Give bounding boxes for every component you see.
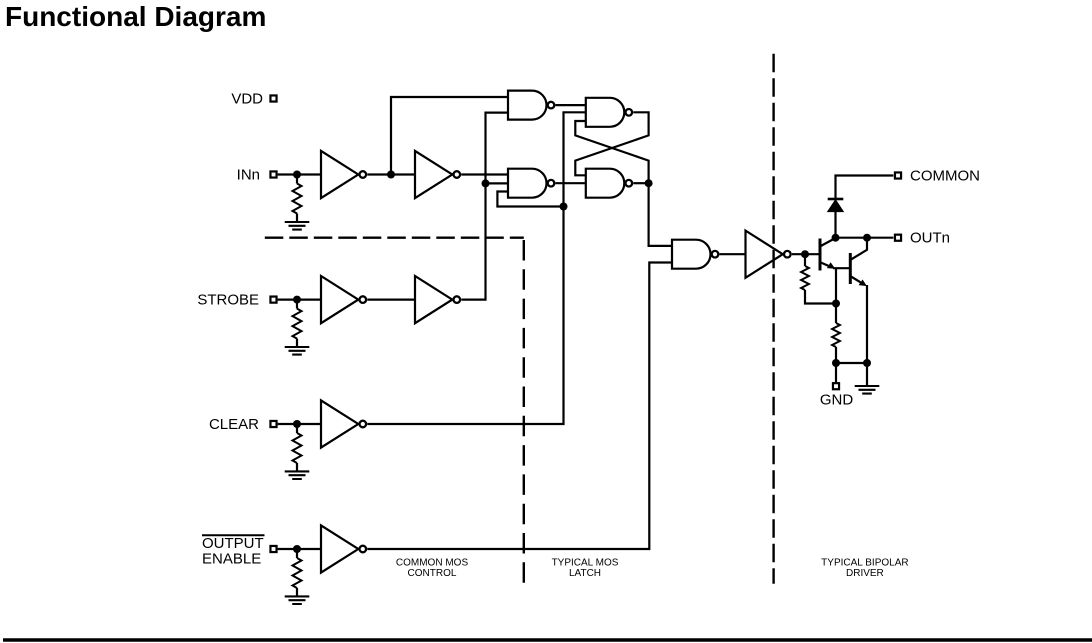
- inverter C1 (CLEAR): [321, 400, 366, 447]
- svg-text:INn: INn: [237, 166, 260, 183]
- wire NAND G5 output to inverter A3: [719, 253, 745, 255]
- wire Q2 emitter down to ground node: [866, 285, 868, 363]
- wire latch node down to NAND G5 top input: [649, 183, 672, 246]
- transistor Q1: [820, 238, 836, 271]
- inverter D1 (OUTPUT ENABLE): [321, 525, 366, 572]
- wire buffer A2 to NAND G2 top input: [461, 173, 508, 175]
- wire emitter node down to R2 node: [835, 268, 837, 303]
- wire buffer A1 to buffer A2: [367, 173, 415, 175]
- svg-text:GND: GND: [820, 392, 854, 409]
- junction dot clear node: [560, 203, 568, 211]
- wire node after A1 up to NAND G1 top input: [391, 97, 508, 175]
- NAND gate G3: [586, 98, 632, 127]
- wire stub to NAND G2 middle input: [486, 182, 509, 184]
- junction dot Q1 collector: [832, 234, 840, 242]
- junction dot strobe line at G2 input: [482, 179, 490, 187]
- wire buffer B1 to buffer B2: [367, 299, 415, 301]
- svg-text:COMMON MOS: COMMON MOS: [396, 557, 469, 568]
- buffer B1 (STROBE first): [321, 276, 366, 323]
- wire bottom ground bus: [836, 362, 867, 364]
- label typical bipolar driver: [821, 557, 908, 579]
- junction dot driver input: [801, 250, 809, 258]
- label typical mos latch: [552, 557, 619, 579]
- dashed boundary horizontal: [265, 236, 524, 238]
- wire inverter A3 output to Q1 base: [792, 253, 820, 255]
- wire NAND G3 output cross-couple to NAND G4 top input: [575, 112, 648, 175]
- inverter A3 (output driver input): [746, 231, 791, 278]
- junction dot latch output: [645, 179, 653, 187]
- junction dot STROBE input: [293, 296, 301, 304]
- transistor Q2: [850, 238, 867, 286]
- svg-text:OUTn: OUTn: [910, 230, 950, 247]
- NAND gate G5: [672, 240, 718, 269]
- NAND gate G4: [586, 169, 632, 198]
- wire NAND G2 bottom input loop to clear node: [497, 192, 563, 207]
- bottom rule: [3, 638, 1092, 641]
- wire STROBE terminal to buffer B1: [278, 299, 321, 301]
- resistor R1 (base-emitter): [801, 254, 836, 303]
- wire collector bus to OUTn terminal: [836, 237, 894, 239]
- svg-text:CONTROL: CONTROL: [408, 568, 457, 579]
- ground INn pulldown: [285, 222, 310, 230]
- junction dot earth stub: [863, 359, 871, 367]
- wire CLEAR terminal to inverter C1: [278, 423, 321, 425]
- svg-text:OUTPUT: OUTPUT: [202, 535, 264, 552]
- wire NAND G1 output to NAND G3 top input: [556, 104, 586, 106]
- terminal CLEAR: [270, 421, 276, 427]
- pulldown resistor CLEAR: [293, 424, 302, 471]
- svg-text:DRIVER: DRIVER: [846, 568, 884, 579]
- pulldown resistor STROBE: [293, 300, 302, 347]
- svg-text:COMMON: COMMON: [910, 167, 980, 184]
- wire INn terminal to buffer A1: [278, 173, 321, 175]
- svg-text:TYPICAL BIPOLAR: TYPICAL BIPOLAR: [821, 557, 908, 568]
- wire to earth ground: [866, 363, 868, 386]
- wire latch node cross-couple to NAND G3 bottom input: [575, 121, 648, 183]
- terminal OUTn: [895, 235, 901, 241]
- svg-text:CLEAR: CLEAR: [209, 416, 259, 433]
- svg-text:VDD: VDD: [231, 90, 263, 107]
- label common mos control: [396, 557, 469, 579]
- junction dot CLEAR input: [293, 420, 301, 428]
- svg-text:LATCH: LATCH: [569, 568, 601, 579]
- terminal OUTPUT ENABLE: [270, 546, 276, 552]
- buffer A1 (INn first): [321, 151, 366, 198]
- dashed boundary vertical right: [772, 54, 774, 584]
- junction dot Q2 collector: [863, 234, 871, 242]
- label OUTPUT ENABLE with overline: [202, 535, 265, 568]
- wire OUTPUT ENABLE terminal to inverter D1: [278, 548, 321, 550]
- wire output enable up to NAND G5 bottom input: [367, 263, 672, 550]
- svg-text:TYPICAL MOS: TYPICAL MOS: [552, 557, 619, 568]
- svg-text:ENABLE: ENABLE: [202, 550, 261, 567]
- junction dot GND stub: [832, 359, 840, 367]
- resistor R2 (emitter to ground): [832, 304, 840, 364]
- buffer B2 (STROBE second): [415, 276, 460, 323]
- terminal STROBE: [270, 297, 276, 303]
- wire NAND G4 output to latch node: [633, 182, 648, 184]
- junction dot OUTPUT ENABLE input: [293, 545, 301, 553]
- junction dot INn after buffer A1: [387, 171, 395, 179]
- terminal GND: [833, 383, 839, 389]
- buffer A2 (INn second): [415, 151, 460, 198]
- diode D1 to COMMON: [828, 176, 894, 238]
- pulldown resistor INn: [293, 175, 302, 223]
- terminal VDD: [270, 95, 276, 101]
- ground STROBE pulldown: [285, 347, 310, 355]
- NAND gate G1: [508, 91, 554, 120]
- junction dot R1/R2 node: [832, 300, 840, 308]
- svg-text:Functional Diagram: Functional Diagram: [5, 1, 266, 32]
- dashed boundary vertical left: [523, 240, 525, 584]
- pulldown resistor OUTPUT ENABLE: [293, 549, 302, 596]
- ground OUTPUT ENABLE pulldown: [285, 596, 310, 604]
- NAND gate G2: [508, 169, 554, 198]
- ground CLEAR pulldown: [285, 471, 310, 479]
- wire to GND terminal: [835, 363, 837, 382]
- junction dot INn input: [293, 171, 301, 179]
- svg-text:STROBE: STROBE: [197, 292, 259, 309]
- wire strobe vertical: G1 bottom input down to STROBE buffer output: [461, 113, 508, 300]
- terminal INn: [270, 171, 276, 177]
- wire NAND G2 output to NAND G4 bottom input: [556, 182, 586, 184]
- wire Q1 emitter to Q2 base: [833, 267, 850, 269]
- ground earth (driver): [855, 386, 880, 394]
- wire clear vertical: G3 middle input down to CLEAR inverter output: [367, 112, 586, 424]
- terminal COMMON: [895, 172, 901, 178]
